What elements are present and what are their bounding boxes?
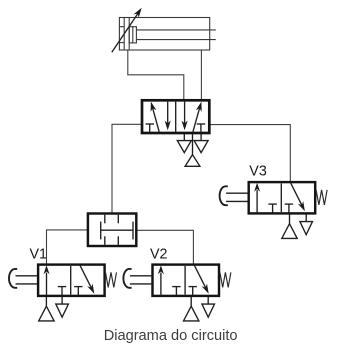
- svg-text:V2: V2: [150, 247, 168, 263]
- svg-text:Diagrama do circuito: Diagrama do circuito: [104, 328, 238, 344]
- svg-text:V1: V1: [30, 247, 48, 263]
- svg-text:V3: V3: [249, 164, 267, 180]
